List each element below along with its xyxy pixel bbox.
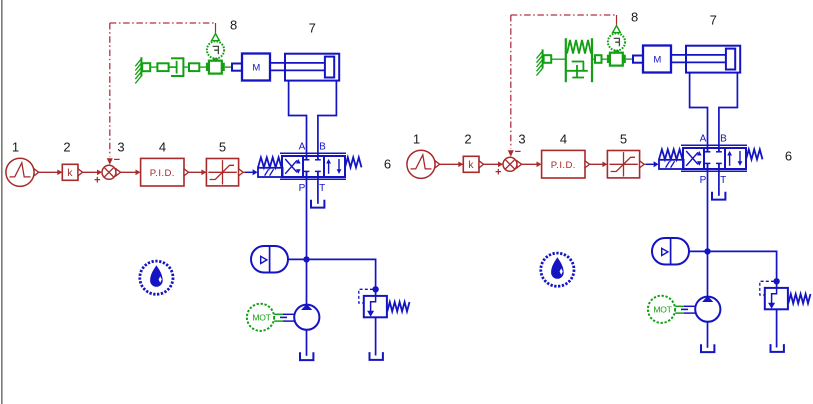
component number label 8 (right)	[631, 10, 638, 25]
svg-text:M: M	[653, 55, 661, 66]
valve 6 proportional solenoid (left)	[258, 168, 283, 177]
port label T (left)	[319, 183, 325, 194]
wire to relief valve (left)	[307, 259, 376, 296]
svg-text:P.I.D.: P.I.D.	[150, 168, 175, 179]
tank wire T (left)	[317, 171, 319, 203]
accumulator (right)	[652, 238, 689, 265]
pump tank wire (left)	[306, 330, 308, 356]
cylinder port wire B (left)	[318, 81, 337, 160]
wire to relief valve (right)	[708, 251, 777, 288]
signal generator 1 (left)	[6, 158, 39, 186]
feedback dash-dot vertical wire (left)	[109, 23, 111, 157]
junction node at relief pilot (right)	[774, 279, 779, 284]
cylinder 7 piston (left)	[325, 57, 334, 78]
valve 6 left spring (right)	[659, 149, 683, 159]
motor-pump shaft (right)	[675, 306, 695, 313]
junction node at relief pilot (left)	[373, 287, 378, 292]
damper (left)	[171, 57, 184, 77]
svg-text:6: 6	[785, 149, 792, 164]
force sensor dial F 8 (right)	[608, 33, 625, 50]
svg-text:+: +	[94, 175, 100, 187]
valve 6 crossed-flow cell (right)	[686, 151, 701, 166]
pump (left)	[294, 304, 319, 330]
spring-damper right plate (right)	[591, 38, 593, 82]
window left border	[1, 0, 3, 404]
cylinder port wire B (right)	[719, 73, 738, 152]
summing junction 3 (left)	[102, 165, 121, 179]
saturation block 5 (left)	[206, 159, 243, 186]
force sensor link triangle 8 (left)	[212, 34, 220, 41]
svg-text:T: T	[319, 183, 325, 194]
component number label 2 (left)	[63, 139, 70, 154]
svg-text:k: k	[468, 159, 474, 171]
feedback arrow into node 3 (left)	[107, 158, 113, 165]
component number label 5 (right)	[620, 131, 627, 146]
link rod c (right)	[602, 58, 607, 60]
wire 2-3 (right)	[484, 162, 503, 168]
valve 6 closed-centre cell (right)	[705, 148, 722, 169]
svg-text:1: 1	[12, 139, 19, 154]
link square a (left)	[142, 63, 150, 71]
tank wire T (right)	[718, 163, 720, 195]
link square c (left)	[189, 63, 199, 71]
plus sign at node 3 (right)	[495, 167, 501, 179]
svg-text:5: 5	[219, 139, 226, 154]
component number label 1 (right)	[413, 131, 420, 146]
fluid properties icon (right)	[541, 253, 574, 286]
sensor to mass link (left)	[225, 66, 232, 68]
svg-text:−: −	[114, 154, 120, 166]
minus sign at node 3 (left)	[114, 154, 120, 166]
force sensor link triangle 8 (right)	[613, 26, 621, 33]
port label B (left)	[319, 142, 326, 153]
tank under relief valve (left)	[370, 352, 383, 360]
mass block M (right)	[643, 46, 671, 73]
relief valve (right)	[765, 288, 788, 309]
PID controller 4 (right)	[542, 150, 590, 178]
link rod b (right)	[592, 58, 595, 60]
valve 6 top bar (left)	[280, 152, 346, 154]
svg-text:P: P	[700, 175, 707, 186]
valve 6 proportional solenoid (right)	[659, 160, 684, 169]
feedback dash-dot vertical wire (right)	[510, 15, 512, 149]
accumulator wire (left)	[288, 258, 307, 260]
link square a (right)	[544, 55, 552, 63]
valve 6 right spring (left)	[345, 157, 362, 167]
feedback dash-dot horizontal wire (left)	[110, 22, 216, 24]
component number label 8 (left)	[230, 18, 237, 33]
svg-text:+: +	[495, 167, 501, 179]
svg-text:M: M	[252, 63, 260, 74]
tank under pump (right)	[701, 344, 714, 352]
gain block k 2 (right)	[463, 156, 483, 172]
junction node at accumulator (left)	[304, 257, 309, 262]
port label A (right)	[700, 134, 707, 145]
tank under pump (left)	[300, 352, 313, 360]
sensor to mass link (right)	[626, 58, 633, 60]
valve 6 right spring (right)	[746, 149, 763, 159]
fluid properties icon (left)	[140, 261, 173, 294]
pump tank wire (right)	[707, 322, 709, 348]
force sensor dial F 8 (left)	[207, 41, 224, 58]
link rod a (left)	[150, 66, 157, 68]
mechanical ground wall (right)	[537, 49, 543, 75]
component number label 4 (left)	[159, 139, 166, 154]
valve 6 parallel-flow cell (right)	[727, 151, 742, 166]
wire 1-2 (right)	[440, 162, 464, 168]
damper (right)	[567, 62, 588, 78]
valve 6 top bar (right)	[681, 144, 747, 146]
electric motor MOT (right)	[648, 296, 675, 323]
rod end stub (left)	[232, 64, 242, 71]
tank under relief valve (right)	[771, 344, 784, 352]
motor-pump shaft (left)	[274, 314, 294, 321]
link square b (right)	[595, 55, 602, 63]
svg-text:k: k	[67, 167, 73, 179]
port label A (left)	[299, 142, 306, 153]
force sensor body 8 (left)	[206, 58, 225, 73]
cylinder 7 piston (right)	[726, 49, 735, 70]
port label T (right)	[720, 175, 726, 186]
sensor tap wire (right)	[616, 15, 618, 26]
relief valve spring (left)	[387, 302, 409, 311]
svg-text:6: 6	[384, 157, 391, 172]
svg-text:8: 8	[631, 10, 638, 25]
svg-text:2: 2	[464, 131, 471, 146]
pressure wire P (left)	[306, 171, 308, 305]
feedback arrow into node 3 (right)	[508, 150, 514, 157]
mechanical ground wall (left)	[135, 57, 141, 83]
link rod c (left)	[199, 66, 206, 68]
component number label 1 (left)	[12, 139, 19, 154]
mass block M (left)	[242, 54, 270, 81]
wire 3-4 (right)	[522, 162, 542, 168]
component number label 4 (right)	[560, 131, 567, 146]
pressure wire P (right)	[707, 163, 709, 297]
component number label 5 (left)	[219, 139, 226, 154]
tank under valve (right)	[712, 192, 725, 200]
wire 2-3 (left)	[83, 170, 102, 176]
svg-text:1: 1	[413, 131, 420, 146]
svg-text:P.I.D.: P.I.D.	[551, 160, 576, 171]
svg-text:2: 2	[63, 139, 70, 154]
cylinder port wire A (left)	[289, 81, 307, 160]
valve 6 left spring (left)	[258, 157, 282, 167]
link rod a (right)	[551, 58, 565, 60]
link square b (left)	[157, 63, 168, 71]
accumulator wire (right)	[689, 250, 708, 252]
svg-text:B: B	[720, 134, 727, 145]
piston rod (right)	[671, 55, 727, 63]
rod end stub (right)	[633, 56, 643, 63]
svg-text:3: 3	[117, 139, 124, 154]
relief valve spring (right)	[788, 294, 810, 303]
relief valve tank wire (right)	[776, 309, 778, 347]
signal generator 1 (right)	[407, 150, 440, 178]
minus sign at node 3 (right)	[515, 146, 521, 158]
pump (right)	[695, 296, 720, 322]
svg-text:A: A	[700, 134, 707, 145]
wire 4-5 (right)	[590, 162, 608, 168]
relief valve pilot dashed wire (left)	[359, 289, 373, 303]
port label P (left)	[299, 183, 306, 194]
svg-text:3: 3	[518, 131, 525, 146]
saturation block 5 (right)	[607, 151, 644, 178]
PID controller 4 (left)	[141, 158, 189, 186]
svg-text:7: 7	[710, 13, 717, 28]
component number label 3 (right)	[518, 131, 525, 146]
valve 6 body (right)	[683, 148, 746, 169]
svg-text:5: 5	[620, 131, 627, 146]
valve 6 bottom bar (right)	[681, 170, 747, 172]
tank under valve (left)	[311, 200, 324, 208]
valve 6 parallel-flow cell (left)	[326, 159, 341, 174]
spring (right)	[567, 40, 591, 54]
wire 5-valve (right)	[644, 161, 658, 167]
cylinder 7 body (right)	[686, 46, 740, 73]
svg-text:T: T	[720, 175, 726, 186]
cylinder 7 body (left)	[285, 54, 339, 81]
component number label 6 (right)	[785, 149, 792, 164]
relief valve (left)	[364, 296, 387, 317]
accumulator (left)	[251, 246, 288, 273]
svg-text:−: −	[515, 146, 521, 158]
svg-text:4: 4	[159, 139, 166, 154]
svg-text:8: 8	[230, 18, 237, 33]
svg-text:7: 7	[309, 21, 316, 36]
svg-text:MOT: MOT	[653, 304, 672, 314]
component number label 7 (left)	[309, 21, 316, 36]
wire 4-5 (left)	[189, 170, 207, 176]
valve 6 bottom bar (left)	[280, 178, 346, 180]
valve 6 crossed-flow cell (left)	[285, 159, 300, 174]
piston rod (left)	[270, 63, 326, 71]
svg-text:4: 4	[560, 131, 567, 146]
port label P (right)	[700, 175, 707, 186]
summing junction 3 (right)	[503, 157, 522, 171]
svg-text:P: P	[299, 183, 306, 194]
sensor tap wire (left)	[215, 23, 217, 34]
relief valve tank wire (left)	[375, 317, 377, 355]
link rod b (left)	[184, 66, 189, 68]
gain block k 2 (left)	[62, 164, 82, 180]
feedback dash-dot horizontal wire (right)	[511, 14, 617, 16]
cylinder port wire A (right)	[690, 73, 708, 152]
wire 3-4 (left)	[121, 170, 141, 176]
wire 1-2 (left)	[39, 170, 63, 176]
port label B (right)	[720, 134, 727, 145]
svg-text:MOT: MOT	[252, 312, 271, 322]
component number label 6 (left)	[384, 157, 391, 172]
svg-text:B: B	[319, 142, 326, 153]
component number label 2 (right)	[464, 131, 471, 146]
component number label 3 (left)	[117, 139, 124, 154]
component number label 7 (right)	[710, 13, 717, 28]
plus sign at node 3 (left)	[94, 175, 100, 187]
force sensor body 8 (right)	[607, 50, 626, 65]
valve 6 body (left)	[282, 156, 345, 177]
electric motor MOT (left)	[247, 304, 274, 331]
damper rod (left)	[169, 66, 177, 68]
spring-damper left plate (right)	[565, 38, 567, 82]
junction node at accumulator (right)	[705, 249, 710, 254]
relief valve pilot dashed wire (right)	[760, 281, 774, 295]
valve 6 closed-centre cell (left)	[304, 156, 321, 177]
svg-text:A: A	[299, 142, 306, 153]
wire 5-valve (left)	[243, 169, 257, 175]
